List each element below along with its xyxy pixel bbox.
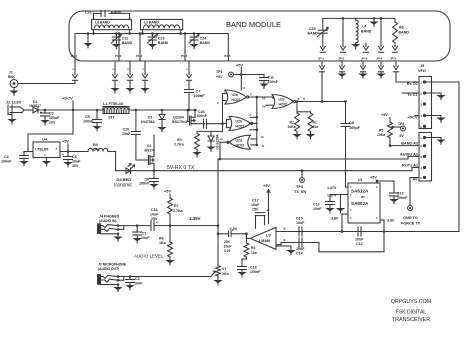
svg-text:+DCV: +DCV xyxy=(62,96,73,101)
svg-text:51a: 51a xyxy=(313,125,319,129)
svg-text:1N4756A: 1N4756A xyxy=(141,120,156,124)
svg-text:U2c: U2c xyxy=(279,98,285,102)
svg-text:5V: 5V xyxy=(262,105,266,109)
svg-text:C14: C14 xyxy=(296,252,303,256)
svg-text:10nF: 10nF xyxy=(141,236,150,240)
svg-text:TP3: TP3 xyxy=(296,185,303,189)
svg-text:10nF: 10nF xyxy=(355,238,364,242)
svg-text:AUDIO LEVEL: AUDIO LEVEL xyxy=(134,254,164,259)
svg-text:VFO: VFO xyxy=(418,69,426,73)
svg-text:C22: C22 xyxy=(122,37,129,41)
svg-text:8: 8 xyxy=(376,185,378,189)
svg-text:U2d: U2d xyxy=(236,138,242,142)
svg-text:10nF: 10nF xyxy=(122,132,131,136)
svg-text:3: 3 xyxy=(420,102,422,106)
svg-text:HC02: HC02 xyxy=(232,98,241,102)
svg-text:100nF: 100nF xyxy=(268,80,279,84)
svg-text:10: 10 xyxy=(262,97,266,101)
svg-text:78L05: 78L05 xyxy=(37,147,49,152)
svg-text:2.7Ka: 2.7Ka xyxy=(173,209,184,213)
svg-text:10nF: 10nF xyxy=(296,221,305,225)
svg-text:10nF: 10nF xyxy=(296,247,305,251)
svg-text:L4: L4 xyxy=(362,25,366,29)
svg-text:R8: R8 xyxy=(399,26,404,30)
svg-text:U2a: U2a xyxy=(232,93,238,97)
svg-text:P1-2: P1-2 xyxy=(115,54,122,58)
svg-text:+5V: +5V xyxy=(216,75,223,79)
svg-text:R3: R3 xyxy=(251,246,255,250)
svg-text:C25: C25 xyxy=(309,27,316,31)
svg-text:P1-3: P1-3 xyxy=(136,54,143,58)
svg-text:C21: C21 xyxy=(85,11,92,15)
svg-text:1Ka: 1Ka xyxy=(159,241,167,245)
svg-text:J3 MICROPHONE: J3 MICROPHONE xyxy=(98,263,127,267)
svg-text:+: + xyxy=(40,111,42,115)
svg-text:C5: C5 xyxy=(72,155,77,159)
svg-text:R9: R9 xyxy=(177,138,182,142)
svg-text:C2: C2 xyxy=(135,277,140,281)
svg-text:+5V: +5V xyxy=(263,184,270,188)
svg-text:4: 4 xyxy=(420,166,422,170)
svg-text:R7: R7 xyxy=(174,204,179,208)
svg-text:Rx C0: Rx C0 xyxy=(407,82,418,86)
svg-text:HC02: HC02 xyxy=(236,125,245,129)
svg-text:100nF: 100nF xyxy=(397,196,408,200)
svg-text:25V: 25V xyxy=(151,217,158,221)
svg-text:U1: U1 xyxy=(358,178,363,182)
svg-text:10Ka: 10Ka xyxy=(288,125,296,129)
svg-text:BAND: BAND xyxy=(308,32,319,36)
svg-text:L3 BAND: L3 BAND xyxy=(144,21,159,25)
svg-text:100nF: 100nF xyxy=(83,120,94,124)
svg-text:P1-1: P1-1 xyxy=(71,54,78,58)
svg-text:R4: R4 xyxy=(93,143,98,147)
svg-text:BAND: BAND xyxy=(361,30,372,34)
svg-text:0: 0 xyxy=(284,238,286,242)
svg-text:FSK DIGITAL: FSK DIGITAL xyxy=(396,310,426,316)
svg-text:P1-5: P1-5 xyxy=(224,54,231,58)
svg-text:10uF: 10uF xyxy=(224,245,232,249)
svg-text:P1-4: P1-4 xyxy=(181,54,188,58)
svg-text:C3: C3 xyxy=(49,112,54,116)
svg-text:(AUDIO OUT): (AUDIO OUT) xyxy=(98,267,119,271)
svg-text:3: 3 xyxy=(250,93,252,97)
svg-text:4: 4 xyxy=(350,216,352,220)
svg-text:13: 13 xyxy=(220,137,224,141)
svg-text:QRPGUYS.COM: QRPGUYS.COM xyxy=(391,299,431,305)
svg-text:2: 2 xyxy=(350,193,352,197)
svg-text:C15: C15 xyxy=(296,217,303,221)
svg-text:3.8V: 3.8V xyxy=(331,217,339,221)
svg-text:TP1: TP1 xyxy=(216,70,223,74)
svg-text:FORCE TX: FORCE TX xyxy=(401,222,421,226)
svg-text:R2: R2 xyxy=(290,121,294,125)
svg-text:10uF: 10uF xyxy=(150,213,159,217)
svg-text:5: 5 xyxy=(376,216,378,220)
svg-text:+: + xyxy=(232,229,234,233)
svg-text:TX_EN: TX_EN xyxy=(294,190,306,194)
svg-text:C16: C16 xyxy=(151,208,158,212)
svg-text:(AUDIO IN): (AUDIO IN) xyxy=(99,219,117,223)
svg-text:C18: C18 xyxy=(250,266,257,270)
svg-text:+5V: +5V xyxy=(381,113,388,117)
svg-text:+: + xyxy=(156,221,158,225)
svg-text:C9: C9 xyxy=(85,115,90,119)
svg-text:100nF: 100nF xyxy=(250,270,261,274)
svg-text:+5V: +5V xyxy=(62,140,69,144)
svg-text:10n: 10n xyxy=(251,251,257,255)
svg-text:+: + xyxy=(62,153,64,157)
svg-text:GND TO: GND TO xyxy=(403,216,418,220)
svg-text:Q2/3/4: Q2/3/4 xyxy=(173,116,184,120)
svg-text:J4 PHONES: J4 PHONES xyxy=(99,215,120,219)
svg-text:G1: G1 xyxy=(147,144,152,148)
svg-text:1N5817: 1N5817 xyxy=(29,104,41,108)
svg-text:100nF: 100nF xyxy=(139,182,150,186)
svg-text:BNC: BNC xyxy=(8,75,16,79)
svg-text:D4 RED: D4 RED xyxy=(117,177,132,182)
svg-text:TP2: TP2 xyxy=(398,122,404,126)
svg-text:1.37V: 1.37V xyxy=(327,186,337,190)
svg-text:3: 3 xyxy=(350,208,352,212)
svg-text:C11: C11 xyxy=(268,76,274,80)
svg-text:R6: R6 xyxy=(159,237,164,241)
svg-text:6V: 6V xyxy=(400,134,405,138)
svg-text:transmit: transmit xyxy=(114,183,132,189)
svg-text:SA602A: SA602A xyxy=(351,201,369,206)
svg-text:+: + xyxy=(266,209,268,213)
svg-text:12: 12 xyxy=(261,135,265,139)
svg-text:100nF: 100nF xyxy=(197,114,208,118)
svg-text:C10: C10 xyxy=(397,192,404,196)
svg-text:C13: C13 xyxy=(356,242,363,246)
svg-text:10Ka: 10Ka xyxy=(377,133,385,137)
svg-text:1.35V: 1.35V xyxy=(189,216,201,221)
svg-text:5: 5 xyxy=(420,176,422,180)
svg-text:25V: 25V xyxy=(224,240,231,244)
svg-text:+5V: +5V xyxy=(370,176,377,180)
svg-text:SA612A: SA612A xyxy=(351,189,369,194)
svg-text:1: 1 xyxy=(420,136,422,140)
svg-text:100nF: 100nF xyxy=(1,160,12,164)
svg-text:14: 14 xyxy=(242,86,245,90)
svg-text:25V: 25V xyxy=(252,208,259,212)
svg-text:BAND: BAND xyxy=(399,31,410,35)
svg-text:1: 1 xyxy=(420,80,422,84)
svg-text:C1: C1 xyxy=(142,232,147,236)
svg-text:13T: 13T xyxy=(108,116,115,120)
svg-text:C24: C24 xyxy=(200,37,207,41)
svg-text:J1: J1 xyxy=(9,71,13,75)
svg-text:3.8V: 3.8V xyxy=(387,219,395,223)
svg-text:R5: R5 xyxy=(379,129,383,133)
svg-text:TRANSCEIVER: TRANSCEIVER xyxy=(392,317,430,323)
svg-text:BAND MODULE: BAND MODULE xyxy=(226,20,281,29)
svg-text:100nF: 100nF xyxy=(194,94,206,98)
svg-text:2: 2 xyxy=(217,101,219,105)
svg-text:2.7Ka: 2.7Ka xyxy=(174,143,185,147)
svg-text:C7: C7 xyxy=(196,90,201,94)
svg-text:100uF: 100uF xyxy=(49,116,60,120)
svg-text:BAND: BAND xyxy=(122,41,133,45)
svg-text:LM386: LM386 xyxy=(259,239,270,243)
svg-text:HC02: HC02 xyxy=(279,103,288,107)
svg-text:0: 0 xyxy=(303,97,305,101)
svg-text:10uF: 10uF xyxy=(251,203,260,207)
svg-text:+5V: +5V xyxy=(164,190,171,194)
svg-text:16V: 16V xyxy=(49,121,56,125)
svg-text:BAND: BAND xyxy=(158,41,169,45)
svg-text:BAND: BAND xyxy=(111,11,122,15)
svg-text:10nF: 10nF xyxy=(313,207,322,211)
svg-text:or: or xyxy=(361,195,365,199)
svg-text:2: 2 xyxy=(420,91,422,95)
svg-text:C4: C4 xyxy=(4,155,9,159)
svg-text:R1: R1 xyxy=(313,121,317,125)
svg-text:J2 13.8V: J2 13.8V xyxy=(6,101,22,105)
svg-text:2: 2 xyxy=(420,144,422,148)
svg-text:5V-RX 0 TX: 5V-RX 0 TX xyxy=(167,165,195,171)
svg-text:C23: C23 xyxy=(158,37,165,41)
svg-text:+5V: +5V xyxy=(236,64,243,68)
svg-text:L2 BAND: L2 BAND xyxy=(95,21,110,25)
svg-text:BS170x3: BS170x3 xyxy=(172,120,187,124)
svg-text:0: 0 xyxy=(284,227,286,231)
svg-text:5: 5 xyxy=(250,113,252,117)
svg-text:J5: J5 xyxy=(420,64,424,68)
svg-text:3: 3 xyxy=(56,147,58,151)
svg-text:V1: V1 xyxy=(222,267,226,271)
svg-text:C20: C20 xyxy=(123,128,130,132)
svg-text:2: 2 xyxy=(44,153,46,157)
svg-text:C8: C8 xyxy=(349,121,354,125)
svg-text:C17: C17 xyxy=(252,199,259,203)
svg-text:C19: C19 xyxy=(224,249,230,253)
svg-text:L1 FT50-43: L1 FT50-43 xyxy=(103,102,123,106)
svg-text:10uF: 10uF xyxy=(72,160,81,164)
svg-text:HC02: HC02 xyxy=(236,143,245,147)
svg-text:U4: U4 xyxy=(42,138,48,142)
svg-text:100pF: 100pF xyxy=(349,126,361,130)
svg-text:2Ka: 2Ka xyxy=(222,272,230,276)
svg-text:10nF: 10nF xyxy=(134,282,143,286)
svg-text:BAND: BAND xyxy=(200,41,211,45)
svg-text:4: 4 xyxy=(420,114,422,118)
svg-text:U2b: U2b xyxy=(236,120,242,124)
svg-text:16V: 16V xyxy=(72,164,79,168)
svg-text:D2: D2 xyxy=(148,116,152,120)
svg-text:U3: U3 xyxy=(266,234,271,238)
svg-text:C12: C12 xyxy=(313,203,320,207)
svg-text:3: 3 xyxy=(420,155,422,159)
svg-text:11: 11 xyxy=(262,144,265,148)
svg-text:BS170: BS170 xyxy=(145,149,155,153)
svg-text:8: 8 xyxy=(298,97,300,101)
